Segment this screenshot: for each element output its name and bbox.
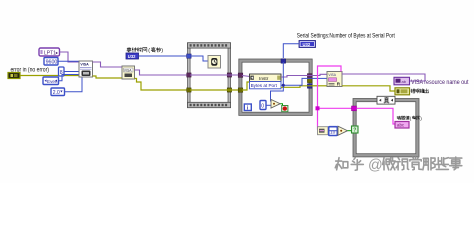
wire data bits (blue) [64,71,79,73]
string length VI [318,127,329,135]
wire inside sequence to Wait (blue) [191,56,208,61]
wire string length to comparison (blue) [328,130,338,132]
comparison greater-than function [271,100,280,109]
svg-text:): ) [161,48,163,54]
case selector label 真 [377,96,395,104]
comparison greater than 2 [338,126,348,135]
indicator terminal string read value [395,122,409,129]
VISA Read VI [327,72,342,87]
indicator VISA resource name out [394,77,410,85]
wire purple VISA Read to resource name out [342,74,425,81]
wire error-in to VISA Configure (olive) [20,75,79,77]
svg-text:VISA: VISA [80,62,89,66]
wire olive node to right tunnel [281,86,312,88]
wire LPT1 to VISA Configure (purple) [60,52,80,62]
wire parity (blue) [59,75,80,81]
wire olive VISA Read to error out [342,86,395,91]
wire wait time to sequence (blue) [139,55,191,57]
svg-text:0: 0 [261,104,264,110]
wire purple through sequence [190,74,240,76]
svg-text:(: ( [148,48,150,54]
indicator terminal U32 bytes count [299,41,316,48]
wire olive error to VISA Read [312,85,328,87]
iteration terminal i [244,104,251,111]
sequence tunnel olive right [227,88,231,92]
error in cluster terminal [8,73,20,79]
case structure frame [353,99,419,157]
wire 9600 baud rate (blue) [58,60,79,62]
wire blue byte count to VISA Read [312,77,328,79]
svg-text:VISA: VISA [124,68,132,72]
VISA resource name constant LPT1 [39,48,60,56]
wire VISA Configure to VISA icon2 (purple) [93,62,123,67]
svg-text:Bytes at Port: Bytes at Port [251,83,278,88]
wire icon2 error to sequence (olive) [135,79,189,91]
numeric constant 10 [329,127,338,136]
sequence tunnel olive left [187,88,191,92]
wire 0 to comparison [266,104,271,106]
loop conditional terminal (stop if true) [282,106,288,112]
svg-text:2.0: 2.0 [53,90,60,96]
case tunnel pink (left) [352,106,357,111]
wire stop bits (blue) [65,77,83,92]
sequence tunnel purple left [187,73,191,77]
wire purple loop to VISA Read [312,74,328,75]
label 等待时间 (毫秒) [127,47,163,54]
wire pink inside case [357,108,396,124]
control terminal U32 wait time [126,53,139,59]
wire pink string output routing [316,66,352,130]
svg-text:U32: U32 [128,54,136,59]
wire blue bytes-at-port output branches [271,62,313,102]
Wait (ms) VI [208,56,221,69]
loop tunnel blue right [307,84,312,88]
indicator error out [395,88,410,95]
svg-text:U32: U32 [303,42,311,47]
numeric constant 9600 [44,58,58,66]
wire olive into property node [242,82,250,90]
loop tunnel blue top [281,59,286,63]
case selector tunnel ? [352,126,359,134]
numeric constant 0 [260,101,266,110]
svg-text:abc: abc [397,123,405,128]
sequence tunnel blue (left) [187,54,191,58]
wire boolean to case selector (green) [348,130,353,132]
label VISA resource name out [411,79,469,86]
label 读取值(电压) [397,116,422,121]
wire purple node to right tunnel [281,76,312,78]
wire VISA Configure error out to icon2 (olive) [93,76,123,78]
numeric constant 8 (data bits) [59,67,65,76]
VISA Configure Serial Port VI [79,61,93,77]
loop tunnel olive left [238,88,243,92]
loop tunnel purple left [238,73,243,77]
svg-text:9600: 9600 [46,60,58,66]
wire indicator to loop tunnel (blue) [283,44,299,58]
svg-text:VISA: VISA [328,73,336,77]
svg-text:?: ? [353,128,356,134]
wire icon2 to sequence (purple) [135,70,189,75]
loop tunnel olive right [307,78,312,82]
svg-text:LPT1: LPT1 [44,50,56,56]
sequence tunnel purple right [227,73,231,77]
wire comparison to conditional terminal (green) [280,104,282,106]
svg-text:ab: ab [402,79,407,84]
ring constant 2.0 (stop bits) [51,88,65,96]
VISA property/flush VI icon2 [122,66,135,79]
label error in (no error) [11,68,50,74]
while loop frame (bytes-at-port polling) [239,59,312,115]
svg-text:Serial Settings:Number of Byte: Serial Settings:Number of Bytes at Seria… [297,33,395,40]
label Serial Settings:Number of Bytes at Serial Port [297,33,395,40]
property node Instr / Bytes at Port [250,74,282,89]
flat sequence structure frame [188,43,231,108]
loop tunnel purple right [307,74,312,78]
label 错误输出 [411,89,429,93]
watermark 知乎@做视觉那些事 [335,157,462,174]
wire olive through sequence [190,89,240,91]
wire purple into property node [242,76,250,77]
svg-text:Even: Even [47,79,58,84]
svg-text:VISA resource name out: VISA resource name out [411,79,469,86]
svg-text:@: @ [368,158,383,174]
enum constant Even (parity) [43,77,59,85]
